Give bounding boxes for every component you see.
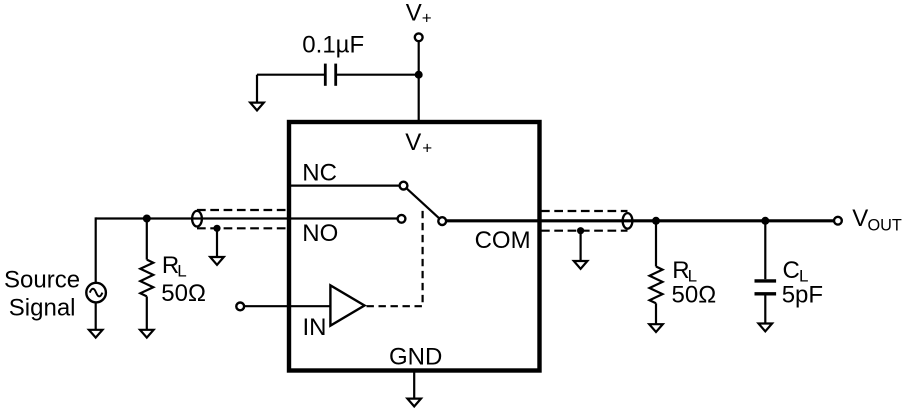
- node left shield junction dot: [213, 225, 220, 232]
- svg-text:+: +: [422, 8, 432, 27]
- node RL right junction dot: [652, 217, 660, 225]
- wire NC pin: [291, 185, 400, 187]
- wire NO pin from source node through box edge: [96, 217, 398, 219]
- svg-text:IN: IN: [303, 314, 327, 341]
- svg-text:Source: Source: [4, 266, 80, 293]
- svg-text:+: +: [422, 138, 432, 157]
- svg-text:50Ω: 50Ω: [161, 280, 206, 307]
- dashed switch control path from driver to blade: [367, 208, 423, 307]
- coax right ellipse: [623, 213, 633, 229]
- svg-text:5pF: 5pF: [782, 281, 823, 308]
- wire right shield to ground: [579, 231, 581, 261]
- source sine symbol: [90, 289, 103, 297]
- terminal IN open circle: [236, 303, 244, 311]
- terminal VOUT open circle: [834, 217, 842, 225]
- switch blade NC to COM: [404, 186, 443, 222]
- wire supply node to bypass capacitor: [257, 74, 325, 76]
- ground (GND pin): [407, 399, 421, 407]
- ground (bypass capacitor): [250, 103, 264, 111]
- coax left ellipse: [192, 211, 202, 227]
- wire V+ terminal to supply node and into box: [418, 42, 420, 125]
- capacitor C1 0.1uF plates: [324, 64, 327, 86]
- svg-text:NC: NC: [302, 159, 337, 186]
- ground (RL right): [649, 324, 663, 332]
- svg-text:NO: NO: [302, 220, 338, 247]
- svg-text:C: C: [783, 257, 800, 284]
- ground (CL): [759, 324, 773, 332]
- wire CL top: [764, 221, 766, 279]
- source AC generator circle: [86, 283, 106, 303]
- driver buffer triangle U1: [330, 285, 364, 325]
- coax shield right dashed bottom: [541, 230, 628, 232]
- switch pole circle NC: [400, 182, 408, 190]
- capacitor CL plates: [755, 279, 777, 282]
- terminal V+ open circle: [415, 33, 423, 41]
- svg-text:50Ω: 50Ω: [672, 281, 717, 308]
- wire GND pin to ground: [413, 372, 415, 399]
- wire CL bottom: [764, 296, 766, 324]
- wire IN terminal to buffer: [244, 305, 330, 307]
- svg-text:0.1µF: 0.1µF: [302, 32, 364, 59]
- svg-text:L: L: [177, 262, 186, 281]
- wire source bottom: [95, 303, 97, 330]
- node source junction dot: [143, 215, 151, 223]
- wire RL left bottom: [146, 296, 148, 329]
- wire source top: [95, 217, 97, 282]
- wire RL left top: [146, 219, 148, 260]
- IC box outline: [289, 122, 540, 371]
- coax shield left dashed top: [197, 209, 289, 211]
- svg-text:V: V: [406, 0, 422, 26]
- node CL junction dot: [761, 217, 769, 225]
- ground (RL left): [140, 330, 154, 338]
- coax shield right dashed top: [541, 210, 628, 212]
- svg-text:GND: GND: [389, 344, 442, 371]
- svg-text:V: V: [405, 129, 421, 156]
- ground (right coax shield): [574, 261, 588, 269]
- switch pole circle COM: [438, 217, 446, 225]
- svg-text:COM: COM: [475, 227, 531, 254]
- ground (source): [89, 330, 103, 338]
- node right shield junction dot: [577, 227, 584, 234]
- svg-text:Signal: Signal: [9, 295, 76, 322]
- wire COM to VOUT (thick): [446, 219, 833, 222]
- wire RL right bottom: [655, 303, 657, 324]
- wire left shield to ground: [216, 228, 218, 257]
- node supply junction dot: [415, 71, 423, 79]
- svg-text:OUT: OUT: [868, 216, 902, 234]
- svg-text:V: V: [852, 205, 868, 232]
- wire capacitor to ground: [256, 75, 258, 103]
- switch pole circle NO: [398, 215, 406, 223]
- ground (left coax shield): [210, 257, 224, 265]
- coax shield left dashed bottom: [197, 227, 289, 229]
- resistor RL left zigzag: [140, 260, 153, 297]
- resistor RL right zigzag: [650, 267, 663, 304]
- wire RL right top: [655, 221, 657, 267]
